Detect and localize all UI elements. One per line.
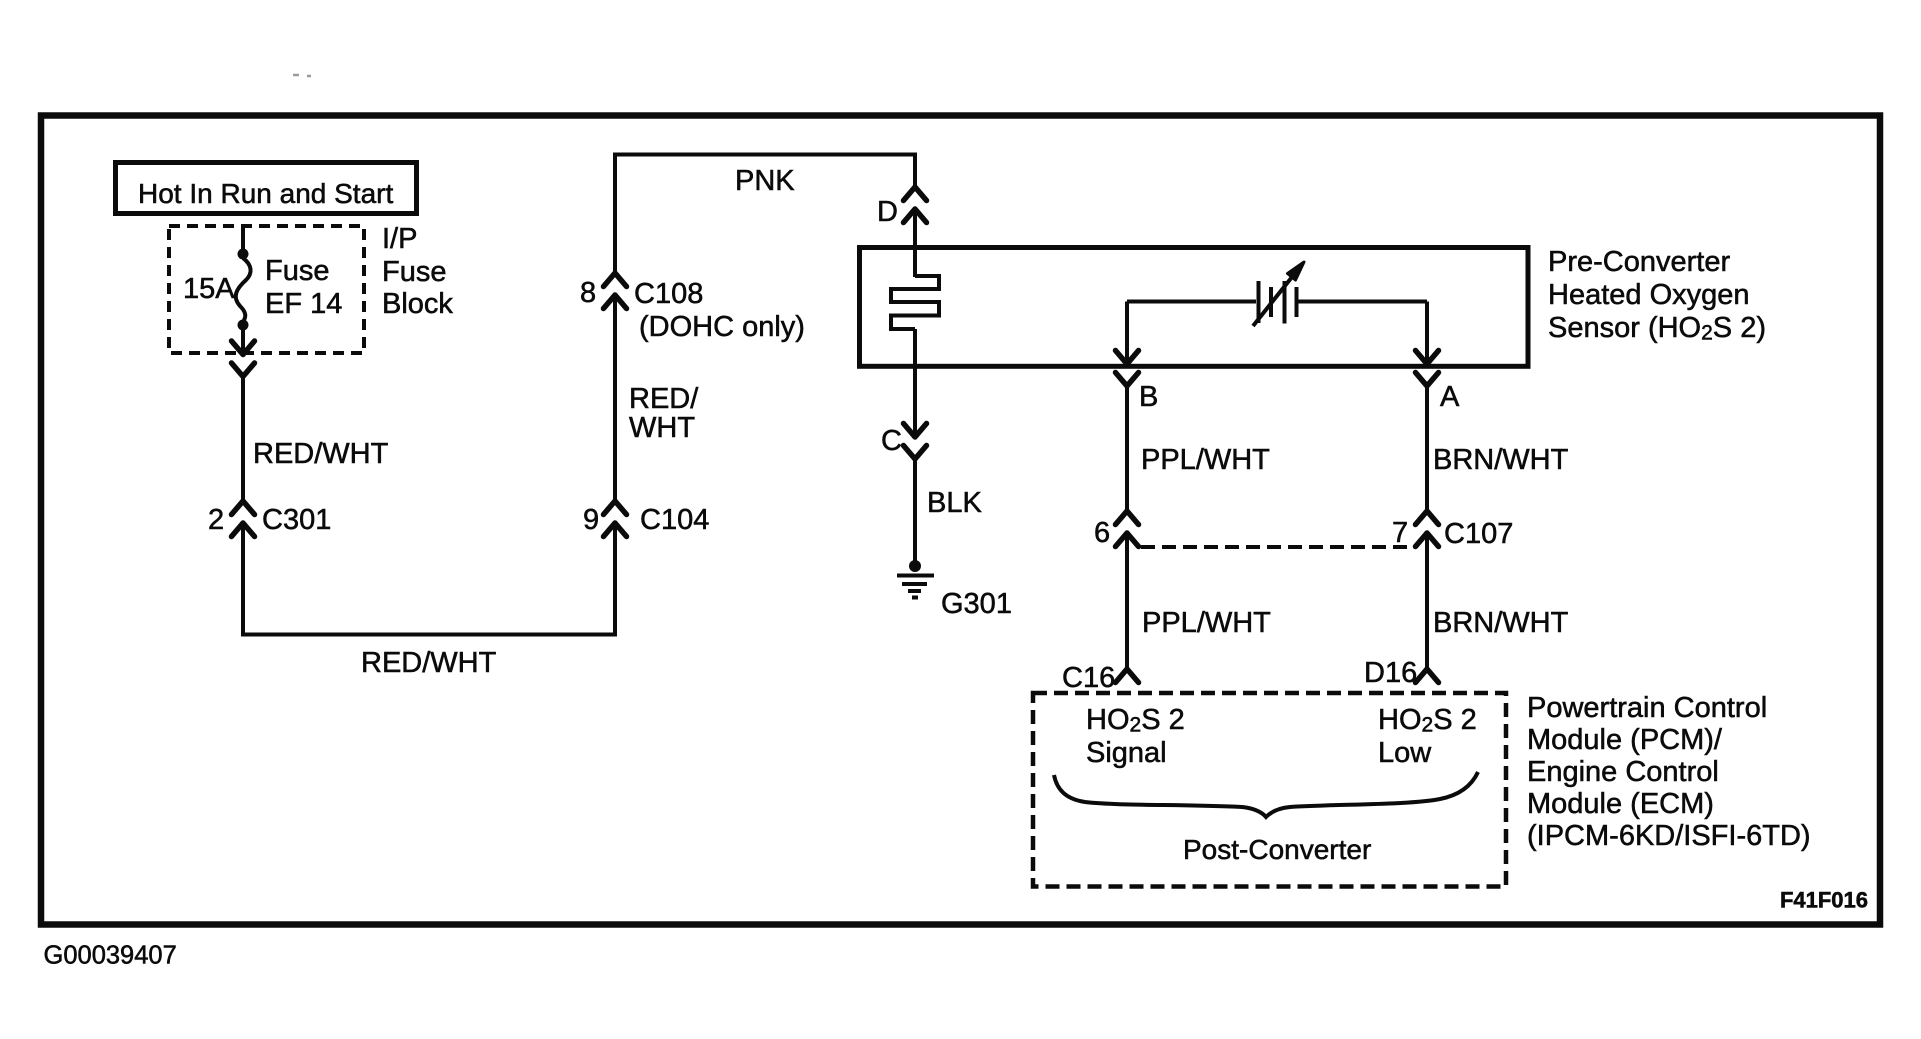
- I/P fuse block (dashed box): [169, 223, 453, 353]
- wire PPL/WHT B to 6: [1125, 386, 1129, 511]
- connector C107 pin 7: [1416, 511, 1439, 547]
- svg-text:BRN/WHT: BRN/WHT: [1433, 444, 1569, 476]
- svg-text:C107: C107: [1444, 518, 1513, 550]
- wire BRN/WHT 7 to D16: [1425, 533, 1429, 669]
- svg-text:PPL/WHT: PPL/WHT: [1141, 444, 1270, 476]
- PCM / ECM label: [1527, 692, 1811, 852]
- brace: [1054, 772, 1478, 817]
- svg-text:PPL/WHT: PPL/WHT: [1142, 607, 1271, 639]
- svg-text:B: B: [1139, 381, 1158, 413]
- svg-text:C104: C104: [640, 504, 709, 536]
- svg-text:BLK: BLK: [927, 487, 982, 519]
- wire PNK: [615, 155, 915, 274]
- Pre-Converter Heated Oxygen Sensor (HO2S 2) box: [860, 248, 1529, 367]
- connector C108 pin 8 (DOHC only): [604, 273, 627, 309]
- connector B (down): [1116, 351, 1139, 387]
- svg-text:D: D: [877, 196, 898, 228]
- junction dot (fuse bottom): [238, 320, 249, 331]
- wire RED/WHT C104 to C108: [613, 295, 617, 501]
- wire element to A: [1425, 302, 1429, 363]
- svg-text:8: 8: [580, 277, 596, 309]
- svg-text:D16: D16: [1364, 657, 1417, 689]
- svg-text:A: A: [1440, 381, 1460, 413]
- wire PPL/WHT 6 to C16: [1125, 533, 1129, 669]
- svg-text:6: 6: [1094, 517, 1110, 549]
- connector A (down): [1416, 351, 1439, 387]
- svg-text:F41F016: F41F016: [1780, 888, 1868, 913]
- svg-text:Signal: Signal: [1086, 737, 1167, 769]
- wire D into sensor: [913, 209, 917, 277]
- power source box: Hot In Run and Start: [116, 163, 417, 214]
- svg-text:Fuse: Fuse: [265, 255, 329, 287]
- svg-text:Engine Control: Engine Control: [1527, 756, 1719, 788]
- svg-text:C108: C108: [634, 278, 703, 310]
- wire BRN/WHT A to 7: [1425, 386, 1429, 511]
- svg-text:Low: Low: [1378, 737, 1432, 769]
- svg-text:G00039407: G00039407: [44, 942, 177, 970]
- svg-text:Hot In Run and Start: Hot In Run and Start: [138, 178, 393, 209]
- svg-text:C301: C301: [262, 504, 331, 536]
- wire element to B: [1125, 302, 1129, 363]
- wire: fuse to connector: [241, 329, 245, 354]
- wire heater to C: [913, 329, 917, 435]
- wire: battery feed into fuse: [241, 225, 245, 251]
- fuse EF 14, 15A: [183, 255, 342, 322]
- wire RED/WHT bottom run: [243, 523, 615, 635]
- svg-text:(IPCM-6KD/ISFI-6TD): (IPCM-6KD/ISFI-6TD): [1527, 820, 1811, 852]
- svg-text:Block: Block: [382, 288, 453, 320]
- svg-text:7: 7: [1392, 517, 1408, 549]
- svg-text:Module (PCM)/: Module (PCM)/: [1527, 724, 1723, 756]
- svg-text:C16: C16: [1062, 662, 1115, 694]
- wire RED/WHT to C301: [241, 377, 245, 502]
- svg-text:BRN/WHT: BRN/WHT: [1433, 607, 1569, 639]
- connector D16: [1416, 669, 1439, 683]
- svg-text:Fuse: Fuse: [382, 256, 446, 288]
- heater element: [891, 276, 939, 329]
- ground G301: [897, 560, 1012, 620]
- svg-text:Powertrain Control: Powertrain Control: [1527, 692, 1767, 724]
- connector C301 pin 2: [232, 501, 255, 537]
- svg-text:15A: 15A: [183, 273, 235, 305]
- svg-text:9: 9: [583, 504, 599, 536]
- svg-text:Heated Oxygen: Heated Oxygen: [1548, 279, 1750, 311]
- svg-text:(DOHC only): (DOHC only): [639, 311, 805, 343]
- sensing element (variable voltage cell): [1253, 262, 1304, 326]
- svg-text:2: 2: [208, 504, 224, 536]
- dashed link C107: [1141, 545, 1414, 549]
- svg-text:G301: G301: [941, 588, 1012, 620]
- svg-text:EF 14: EF 14: [265, 288, 342, 320]
- svg-text:I/P: I/P: [382, 223, 417, 255]
- svg-text:PNK: PNK: [735, 165, 795, 197]
- junction dot (fuse top): [238, 249, 249, 260]
- connector C16: [1116, 669, 1139, 683]
- svg-text:Post-Converter: Post-Converter: [1183, 834, 1371, 865]
- connector C (down): [904, 424, 927, 460]
- wire BLK to ground: [913, 459, 917, 561]
- connector D: [904, 187, 927, 223]
- svg-text:WHT: WHT: [629, 412, 695, 444]
- svg-text:RED/WHT: RED/WHT: [361, 647, 497, 679]
- svg-text:RED/: RED/: [629, 383, 699, 415]
- connector C104 pin 9: [604, 501, 627, 537]
- connector C107 pin 6: [1116, 511, 1139, 547]
- sensing element wires: [1127, 300, 1256, 304]
- svg-text:Pre-Converter: Pre-Converter: [1548, 246, 1730, 278]
- svg-text:Module (ECM): Module (ECM): [1527, 788, 1714, 820]
- svg-text:C: C: [881, 425, 902, 457]
- svg-text:RED/WHT: RED/WHT: [253, 438, 389, 470]
- PCM dashed box (Post-Converter): [1033, 693, 1506, 887]
- connector at fuse block output (down): [232, 341, 255, 377]
- svg-text:Sensor (HO2S 2): Sensor (HO2S 2): [1548, 312, 1766, 345]
